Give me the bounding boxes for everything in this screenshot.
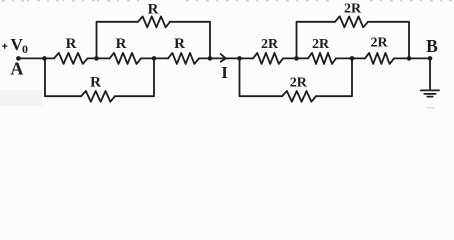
resistor R1 — [54, 53, 88, 64]
svg-text:R: R — [90, 74, 101, 90]
ground — [421, 90, 439, 96]
faint mark near ground — [427, 107, 434, 108]
svg-text:R: R — [148, 1, 159, 17]
svg-text:R: R — [174, 36, 185, 52]
svg-text:R: R — [66, 36, 77, 52]
bottom-right bypass branch wire — [240, 58, 353, 96]
svg-text:R: R — [116, 36, 127, 52]
svg-text:0: 0 — [22, 42, 28, 56]
node B dot — [428, 56, 433, 61]
resistor R2 — [110, 53, 142, 64]
resistor 2R first — [253, 53, 283, 64]
bottom-left bypass branch wire — [45, 58, 154, 96]
resistor R bottom bypass — [81, 91, 115, 102]
svg-text:2R: 2R — [370, 36, 388, 51]
svg-text:2R: 2R — [344, 2, 362, 17]
node A terminal dot — [16, 56, 21, 61]
faint scan shading bottom-left — [0, 90, 42, 106]
wire A to junction — [18, 57, 54, 59]
node dot top-left bypass right — [208, 56, 213, 61]
wire R3 to node I with current arrow — [199, 57, 240, 59]
node dot top-right bypass right — [407, 56, 412, 61]
scan noise specks along top edge — [2, 0, 452, 2]
svg-text:2R: 2R — [312, 37, 330, 52]
resistor 2R second — [308, 53, 336, 64]
resistor R top bypass — [138, 16, 170, 27]
node dot between R2 and R3 — [152, 56, 157, 61]
wire R2 to R3 — [141, 57, 168, 59]
wire 2R2 to 2R3 — [336, 57, 365, 59]
wire 2R1 to 2R2 — [240, 57, 309, 59]
node dot bottom-right bypass right — [350, 56, 355, 61]
resistor 2R top bypass — [335, 16, 368, 27]
top-left bypass branch wire — [97, 22, 211, 59]
node dot top-right bypass left — [294, 56, 299, 61]
wire 2R3 to node B — [394, 57, 430, 59]
junction dot bottom-left bypass left — [42, 56, 47, 61]
node dot top-left bypass left — [94, 56, 99, 61]
svg-text:A: A — [10, 59, 23, 79]
resistor R3 — [168, 53, 199, 64]
svg-text:B: B — [426, 36, 438, 56]
plus sign of V0 — [2, 44, 7, 49]
resistor 2R bottom bypass — [282, 91, 316, 102]
svg-text:2R: 2R — [290, 75, 308, 90]
wire R1 to R2 — [88, 57, 110, 59]
resistor 2R third — [365, 53, 394, 64]
top-right bypass branch wire — [297, 22, 410, 59]
svg-text:2R: 2R — [261, 37, 279, 52]
ground lead wire — [429, 58, 431, 90]
arrowhead I — [221, 54, 226, 62]
svg-text:I: I — [221, 63, 228, 82]
node dot bottom-right bypass left — [237, 56, 242, 61]
